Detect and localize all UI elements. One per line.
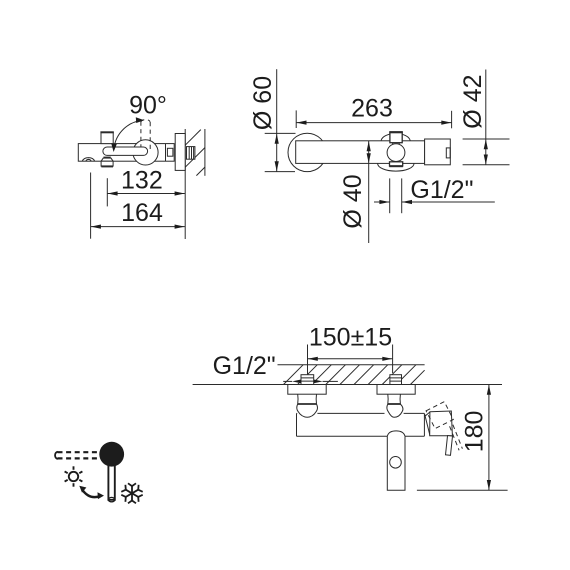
SIDE VIEW	[78, 91, 205, 239]
dim G12 install arrow left	[292, 380, 301, 384]
spout tube	[387, 436, 405, 490]
dim G12 arrow left	[379, 200, 389, 204]
handle end cylinder D42	[425, 139, 451, 165]
dashed horizontal handle position	[58, 452, 101, 458]
wall hatch lines	[185, 130, 205, 176]
diverter knob neck	[393, 143, 400, 145]
wall hatch band	[284, 365, 425, 385]
svg-text:Ø 60: Ø 60	[249, 76, 277, 130]
left inlet extension line	[307, 345, 309, 375]
svg-text:164: 164	[121, 199, 163, 227]
threaded pipe behind wall	[187, 147, 195, 160]
dimension 150pm15	[308, 324, 393, 361]
svg-text:G1/2": G1/2"	[410, 176, 473, 204]
arc arrowhead bottom	[111, 143, 117, 152]
sun symbol	[65, 466, 83, 486]
dim D60 line	[275, 69, 279, 171]
dim D60 extension bottom	[265, 171, 295, 173]
spout body	[78, 144, 174, 162]
body end cap line	[165, 144, 167, 162]
body bar left edge	[296, 413, 298, 436]
top set screw knob	[100, 132, 113, 143]
aerator dome	[82, 158, 94, 162]
dimension 180	[460, 385, 491, 491]
dimension 263	[296, 95, 451, 125]
90 degree swing arc	[114, 120, 143, 148]
spout bottom extension line	[417, 489, 508, 491]
mixer body bar	[296, 141, 425, 164]
handle dashed square	[426, 402, 453, 429]
INSTALL VIEW	[193, 324, 508, 491]
body detail square	[167, 148, 173, 156]
wall back line	[204, 129, 206, 176]
body bar top line	[297, 412, 425, 414]
handle dashed rod	[450, 425, 463, 451]
left inlet ball	[297, 404, 318, 417]
diverter front knob circle	[387, 144, 405, 162]
stem bottom ellipse	[108, 497, 114, 501]
dim G12 line left	[374, 201, 390, 203]
body bar right edge	[423, 413, 425, 436]
handle ball	[99, 442, 124, 467]
dim D42 extension bottom	[463, 164, 510, 166]
svg-text:180: 180	[460, 411, 488, 453]
ICON	[55, 442, 143, 503]
spout shoulder dome	[387, 431, 405, 436]
handle pivot circle	[133, 140, 158, 165]
diverter back arc top	[381, 133, 410, 140]
right inlet flange	[377, 385, 415, 395]
dim D42 extension top	[463, 138, 510, 140]
arc arrowhead top	[136, 117, 144, 123]
dim G12 install line right	[323, 380, 338, 382]
FRONT VIEW	[249, 69, 510, 243]
handle stem	[108, 455, 114, 500]
wall face line	[184, 129, 186, 239]
right inlet thread box	[390, 375, 402, 385]
wall band top line	[278, 364, 425, 366]
dimension 164	[91, 199, 185, 229]
diverter pull knob	[101, 158, 113, 167]
wall face line	[193, 384, 502, 386]
dim G12 install arrow right	[314, 380, 323, 384]
diverter top square	[389, 132, 403, 143]
left inlet flange	[288, 385, 326, 395]
svg-text:G1/2": G1/2"	[213, 352, 276, 380]
svg-text:263: 263	[351, 95, 393, 123]
right inlet neck	[388, 394, 401, 404]
handle head	[430, 411, 453, 436]
extension line 132	[106, 178, 108, 206]
wall escutcheon	[175, 134, 185, 171]
handle end notch	[446, 148, 450, 158]
lever handle horizontal	[103, 147, 148, 155]
dim D40 line and arrows	[367, 141, 371, 243]
dim 263 extension left	[295, 110, 297, 128]
escutcheon circle D60	[288, 133, 326, 171]
dimension 132	[107, 167, 185, 196]
right inlet extension line	[392, 345, 394, 374]
body bar bottom line	[297, 435, 425, 437]
snowflake symbol	[121, 483, 142, 503]
dim D60 extension top	[265, 132, 296, 134]
handle head wedge	[425, 412, 430, 436]
svg-text:150±15: 150±15	[309, 324, 392, 352]
diverter back arc bottom	[378, 164, 414, 172]
extension line left 164	[90, 173, 92, 239]
rotation arrow	[79, 486, 104, 499]
dim G12 arrow right	[402, 200, 412, 204]
spout check valve circle	[390, 457, 402, 469]
diverter bottom outlet	[389, 162, 403, 166]
svg-text:Ø 42: Ø 42	[459, 74, 487, 128]
left inlet thread box	[301, 375, 314, 385]
handle solid rod	[446, 436, 453, 456]
handle end cap ellipse	[55, 452, 58, 459]
dim 263 extension right	[451, 111, 453, 129]
svg-text:132: 132	[121, 167, 163, 195]
svg-text:Ø 40: Ø 40	[339, 174, 367, 228]
dim D42 line	[484, 70, 488, 165]
dim G12 extension left	[389, 178, 391, 213]
left inlet neck	[298, 394, 317, 404]
dim G12 extension right	[401, 178, 403, 213]
dim G12 install line left	[283, 380, 292, 382]
dim G12 line right	[402, 201, 495, 203]
dashed lever vertical position	[141, 120, 150, 149]
svg-text:90°: 90°	[129, 91, 167, 119]
right inlet ball	[387, 404, 403, 417]
